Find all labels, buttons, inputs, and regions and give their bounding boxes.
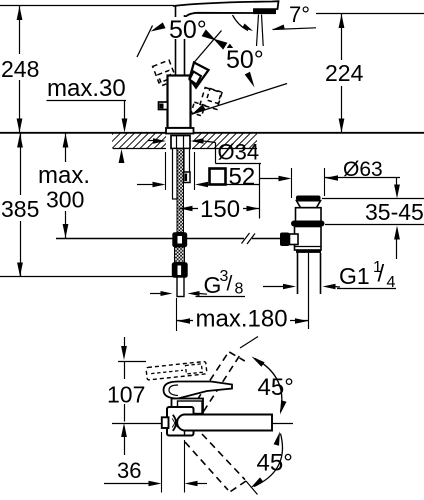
45-degree arc lower bbox=[254, 434, 282, 487]
hose tube bbox=[177, 277, 184, 297]
svg-text:35-45: 35-45 bbox=[365, 199, 424, 225]
svg-text:/: / bbox=[227, 273, 233, 296]
svg-text:50°: 50° bbox=[226, 46, 264, 74]
svg-text:385: 385 bbox=[1, 196, 39, 222]
dashed spout position lower bbox=[185, 442, 228, 490]
svg-text:45°: 45° bbox=[257, 450, 293, 477]
handle lever open position bbox=[190, 63, 209, 88]
spout bar top view bbox=[177, 415, 272, 431]
drain centerline bbox=[308, 253, 310, 329]
dimension 248 line bbox=[19, 6, 21, 55]
svg-text:max.180: max.180 bbox=[196, 306, 288, 333]
square52 extension lines bbox=[165, 152, 167, 190]
closed handle axis line bbox=[192, 84, 287, 115]
top reference line (spout height) bbox=[0, 5, 174, 7]
35-45 dimension bbox=[396, 178, 398, 188]
7-degree arc arrow bbox=[233, 15, 249, 31]
svg-text:Ø63: Ø63 bbox=[343, 158, 383, 181]
right 50-degree arc arrowhead bbox=[245, 72, 255, 88]
dimension 36 line bbox=[104, 483, 150, 485]
svg-text:300: 300 bbox=[46, 187, 84, 213]
rod break marks bbox=[242, 233, 250, 244]
50-degree bowtie arrowheads bbox=[202, 29, 216, 40]
dimension 224 line bbox=[341, 14, 343, 61]
pull rod housing bbox=[173, 149, 178, 200]
svg-text:Ø34: Ø34 bbox=[218, 140, 260, 165]
drain upper body bbox=[296, 208, 322, 222]
drain flange bbox=[296, 196, 321, 201]
svg-text:150: 150 bbox=[200, 196, 240, 223]
small block on shank bbox=[184, 172, 191, 183]
faucet base plate bbox=[166, 128, 194, 134]
G38 arrows bbox=[150, 293, 161, 295]
drain lever knob bbox=[280, 233, 290, 247]
G114 underline bbox=[337, 288, 396, 290]
svg-text:45°: 45° bbox=[258, 374, 294, 401]
left handle axis line bbox=[137, 26, 153, 58]
svg-text:7°: 7° bbox=[289, 2, 310, 27]
mounting nut below deck bbox=[171, 136, 190, 149]
dia34 label bracket bbox=[215, 143, 217, 164]
svg-text:107: 107 bbox=[107, 382, 145, 408]
left 50-degree arrowhead bbox=[151, 22, 166, 31]
spout arm outline bbox=[173, 1, 279, 19]
drain lower body bbox=[295, 227, 322, 251]
threaded shank bbox=[177, 149, 184, 233]
cartridge housing top view bbox=[172, 399, 204, 414]
dashed spout position upper bbox=[191, 355, 228, 411]
svg-text:248: 248 bbox=[1, 56, 39, 82]
hose threaded section bbox=[175, 247, 185, 263]
dimension 107 line bbox=[124, 337, 126, 349]
max180 label bbox=[193, 308, 290, 328]
handle back reference line bbox=[118, 361, 146, 363]
body tab top view bbox=[162, 417, 169, 428]
aerator at spout tip bbox=[253, 10, 276, 15]
drain tailpipe bbox=[297, 253, 299, 294]
svg-text:max.: max. bbox=[38, 162, 90, 189]
hose end reference line bbox=[0, 276, 179, 278]
dimension 150 line bbox=[180, 208, 260, 210]
dimension 150 label bbox=[198, 198, 243, 219]
max300 line bbox=[65, 133, 67, 162]
50-degree label right bbox=[224, 48, 268, 69]
svg-text:224: 224 bbox=[325, 60, 364, 86]
deck hatching bbox=[98, 133, 265, 149]
svg-text:/: / bbox=[378, 261, 385, 288]
spout centerline left bbox=[112, 423, 163, 425]
right tube bbox=[184, 149, 190, 173]
dashed handle position left bbox=[153, 60, 176, 83]
spout riser pipe bbox=[175, 6, 177, 77]
max180 extension line bbox=[176, 298, 178, 331]
square52 symbol bbox=[210, 169, 226, 185]
square52 arrows bbox=[137, 184, 153, 186]
svg-text:50°: 50° bbox=[169, 16, 207, 44]
faucet body bbox=[168, 76, 191, 129]
body side tab bbox=[159, 102, 168, 110]
svg-text:8: 8 bbox=[235, 281, 244, 298]
lever top view bbox=[164, 382, 233, 399]
dashed handle position right bbox=[200, 88, 222, 110]
deck top line bbox=[0, 132, 424, 134]
dimension 385 line bbox=[20, 133, 22, 195]
max.30 underline and leader bbox=[47, 100, 127, 102]
outlet reference line bbox=[316, 13, 424, 15]
hose nut bbox=[173, 263, 188, 277]
dashed handle top view bbox=[146, 361, 207, 380]
deck bottom line bbox=[113, 148, 166, 150]
label connector vline bbox=[259, 164, 261, 219]
45-degree arc upper bbox=[255, 359, 282, 413]
deck underside arrow bbox=[119, 149, 125, 163]
svg-text:52: 52 bbox=[229, 164, 256, 191]
7-degree leader line bbox=[273, 25, 285, 30]
drain Ø63 arrows bbox=[260, 178, 281, 180]
drain o-ring bbox=[291, 221, 325, 227]
pop-up rod bbox=[56, 238, 244, 240]
G114 arrows bbox=[263, 286, 284, 288]
bracket inner edge bbox=[184, 431, 186, 436]
open handle axis line bbox=[194, 31, 222, 63]
svg-text:max.30: max.30 bbox=[47, 75, 126, 102]
body bracket top view bbox=[167, 407, 194, 436]
G38 underline bbox=[196, 296, 246, 298]
dimension 36 extension lines bbox=[161, 432, 163, 493]
hose upper knob bbox=[173, 233, 187, 247]
drain neck bbox=[297, 201, 321, 208]
spout root arc bbox=[173, 415, 176, 431]
dia34 arrows bbox=[148, 140, 154, 142]
max180 dimension line bbox=[177, 320, 308, 322]
water stream lines bbox=[257, 15, 259, 47]
50-degree label left bbox=[167, 17, 210, 39]
drain Ø63 extension lines bbox=[291, 168, 293, 198]
svg-text:G1: G1 bbox=[339, 263, 370, 289]
spout centerline tick bbox=[266, 423, 293, 425]
svg-text:36: 36 bbox=[117, 458, 141, 483]
drain junction bar bbox=[296, 250, 321, 253]
